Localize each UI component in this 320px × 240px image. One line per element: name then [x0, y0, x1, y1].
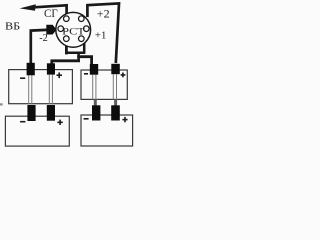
wire: connector bottom-left pin down — [65, 44, 68, 54]
wire stub GB2 bottom to GB4 terminal left — [94, 99, 97, 106]
arrowhead СГ — [20, 4, 36, 10]
plug into -2 pin (west) — [46, 25, 56, 35]
pin west — [58, 26, 64, 32]
polarity mark GB3 plus — [57, 120, 62, 125]
battery GB4 (bottom-right) — [81, 115, 133, 146]
battery GB1 (top-left) — [9, 70, 73, 104]
battery GB2 (top-right) — [81, 70, 127, 99]
svg-text:+2: +2 — [97, 6, 110, 20]
wire stub from connector bottom-right — [83, 43, 86, 54]
terminal GB4 minus — [92, 105, 100, 120]
terminal GB4 plus — [111, 105, 120, 120]
svg-text:ВБ: ВБ — [5, 20, 20, 32]
wire +2 net: connector top-right to right battery + terminal — [87, 3, 119, 63]
svg-text:РСТ: РСТ — [62, 26, 85, 37]
inter-cell link GB1/GB3 left — [29, 75, 32, 104]
inter-cell link GB1/GB3 right — [49, 75, 52, 105]
terminal GB1 plus — [47, 63, 55, 74]
battery GB3 (bottom-left) — [5, 116, 69, 146]
polarity mark GB1 plus — [57, 72, 63, 78]
connector U1 (socket РСТ) — [56, 12, 91, 47]
svg-text:+1: +1 — [95, 29, 107, 41]
polarity mark GB4 plus — [122, 117, 127, 122]
polarity mark GB3 minus — [20, 121, 25, 123]
wire: bus to right battery minus — [77, 57, 91, 65]
inter-cell link GB2/GB4 left — [93, 75, 96, 100]
terminal GB3 plus — [47, 105, 55, 121]
terminal GB3 minus — [27, 105, 35, 121]
polarity mark GB2 plus — [121, 73, 126, 78]
terminal GB2 plus — [111, 64, 120, 74]
polarity mark GB1 minus — [20, 77, 25, 79]
wire: horizontal under connector — [65, 52, 85, 55]
pin east — [84, 26, 90, 32]
wire: bus to left battery plus — [52, 61, 80, 65]
pin bottom-right — [79, 36, 85, 42]
svg-text:СГ: СГ — [44, 8, 58, 20]
terminal GB1 minus — [27, 63, 35, 76]
pin top-right — [79, 16, 85, 22]
wire stub GB2 bottom to GB4 terminal right — [114, 99, 117, 106]
pin top-left — [64, 16, 70, 22]
wire -2 net: connector west plug to left battery - terminal — [31, 30, 47, 64]
terminal GB2 minus — [90, 64, 98, 75]
svg-text:-2: -2 — [39, 33, 48, 44]
pin bottom-left — [64, 36, 70, 42]
inter-cell link GB2/GB4 right — [113, 74, 116, 99]
polarity mark GB4 minus — [84, 118, 89, 120]
polarity mark GB2 minus — [84, 73, 88, 75]
wire to starter-generator (arrow line) — [34, 5, 67, 15]
scan mark at left edge — [0, 103, 3, 105]
wire: junction vertical — [77, 52, 80, 62]
